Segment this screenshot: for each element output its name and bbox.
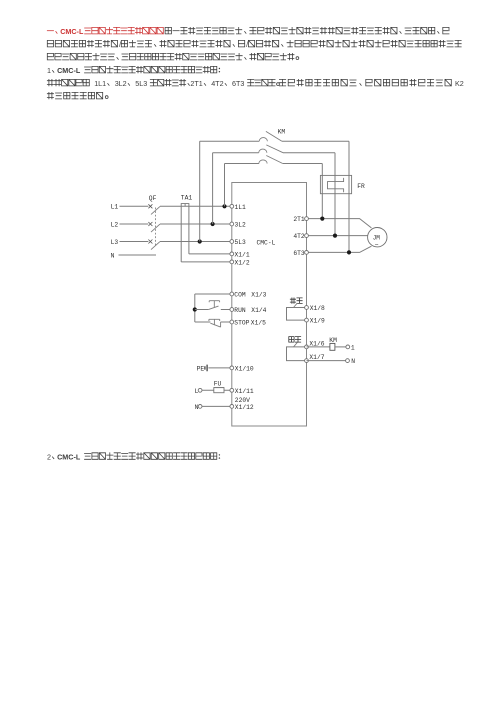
- svg-text:L3: L3: [111, 239, 119, 246]
- svg-text:COM: COM: [234, 292, 246, 299]
- svg-text:RUN: RUN: [234, 307, 246, 314]
- wire control common riser: [194, 294, 196, 322]
- wire to X1/2: [181, 261, 230, 263]
- TA1 lead to X1/2: [180, 206, 182, 262]
- fault relay contact blade: [294, 303, 298, 307]
- terminal N supply: [198, 405, 202, 409]
- terminal X1/10: [230, 366, 234, 370]
- wire KM pole3 to 2T1 node: [321, 164, 323, 219]
- fault relay contact wire: [287, 308, 306, 321]
- svg-text:L2: L2: [111, 221, 119, 228]
- svg-text:/: /: [246, 40, 248, 49]
- current transformer TA1: [181, 204, 189, 207]
- node 6T3 junction: [347, 250, 351, 254]
- circuit breaker QF pole 3 cross: [148, 240, 152, 244]
- breaker QF pole 2 blade: [151, 224, 160, 232]
- terminal STOP X1/5: [230, 320, 234, 324]
- svg-text:X1/5: X1/5: [251, 320, 266, 327]
- node L3 tap: [198, 239, 202, 243]
- terminal X1/12: [230, 405, 234, 409]
- wire N to X1/12: [202, 405, 230, 407]
- terminal COM X1/3: [230, 292, 234, 296]
- wire L to X1/11: [202, 389, 230, 391]
- fuse FU: [214, 388, 224, 393]
- svg-text:2T1: 2T1: [190, 79, 202, 88]
- bypass relay contact blade: [294, 343, 298, 347]
- svg-text:N: N: [195, 404, 199, 411]
- svg-text:CMC-L: CMC-L: [57, 66, 81, 75]
- svg-text:4T2: 4T2: [211, 79, 223, 88]
- svg-text:X1/12: X1/12: [235, 404, 254, 411]
- svg-text:TA1: TA1: [181, 195, 193, 202]
- text line: paragraph line 5: [47, 79, 463, 88]
- TA1 lead to X1/1: [188, 206, 190, 254]
- pushbutton STOP (NC): [195, 319, 230, 327]
- svg-text:QF: QF: [149, 195, 157, 202]
- text line: heading 1: [47, 66, 220, 75]
- text line: paragraph line 3: [47, 53, 298, 60]
- svg-text:1L1: 1L1: [94, 79, 106, 88]
- svg-text:6T3: 6T3: [232, 79, 244, 88]
- svg-text:3L2: 3L2: [115, 79, 127, 88]
- thermal relay FR heater element: [328, 178, 344, 192]
- terminal 4T2: [305, 234, 309, 238]
- terminal X1/8: [305, 306, 309, 310]
- svg-text:X1/4: X1/4: [251, 307, 266, 314]
- svg-text:2T1: 2T1: [293, 216, 305, 223]
- terminal L: [198, 388, 202, 392]
- text line: heading 2: [47, 452, 220, 461]
- svg-text:3L2: 3L2: [235, 222, 247, 229]
- wire 4T2 to motor: [307, 235, 368, 237]
- terminal X1/11: [230, 388, 234, 392]
- label bypass (panglu): [289, 337, 301, 343]
- terminal 5L3: [230, 240, 234, 244]
- svg-text:~: ~: [375, 241, 379, 248]
- svg-text:X1/3: X1/3: [251, 292, 266, 299]
- node control common: [193, 307, 197, 311]
- svg-text:X1/10: X1/10: [235, 365, 254, 372]
- bypass relay contact wire: [287, 347, 306, 361]
- svg-text:CMC-L: CMC-L: [57, 452, 81, 461]
- terminal 1L1: [230, 204, 234, 208]
- svg-text:X1/11: X1/11: [235, 388, 254, 395]
- contactor KM pole 1: [200, 131, 349, 141]
- wire 6T3 to motor: [307, 246, 372, 252]
- svg-text:CMC-L: CMC-L: [60, 27, 84, 36]
- circuit breaker QF pole 1 cross: [148, 204, 152, 208]
- wire KM pole1 to 6T3 node: [348, 141, 350, 252]
- svg-text:L1: L1: [111, 204, 119, 211]
- node L2 tap: [211, 222, 215, 226]
- svg-text:X1/1: X1/1: [235, 251, 250, 258]
- svg-text:FR: FR: [357, 183, 365, 190]
- svg-text:2: 2: [47, 452, 51, 461]
- svg-text:X1/6: X1/6: [309, 340, 324, 347]
- wire KM coil to phase 1: [335, 346, 346, 348]
- svg-text:1: 1: [47, 66, 51, 75]
- wire PE to X1/10: [208, 367, 230, 369]
- svg-text:5L3: 5L3: [135, 79, 147, 88]
- svg-text:L: L: [195, 388, 199, 395]
- wire L3 to breaker: [120, 241, 149, 243]
- wire X1/6 to KM coil: [307, 346, 330, 348]
- wire L3 riser to KM pole 1: [199, 141, 201, 241]
- svg-text:STOP: STOP: [234, 320, 249, 327]
- svg-text:220V: 220V: [235, 397, 250, 404]
- svg-text:CMC-L: CMC-L: [257, 239, 276, 246]
- terminal X1/6: [305, 345, 309, 349]
- contactor coil KM: [330, 343, 335, 350]
- wire KM pole2 to 4T2 node: [334, 153, 336, 236]
- wire L2 riser to KM pole 2: [212, 153, 214, 224]
- terminal 3L2: [230, 222, 234, 226]
- svg-text:1L1: 1L1: [235, 204, 247, 211]
- wire to X1/1: [189, 253, 230, 255]
- svg-text:X1/2: X1/2: [235, 260, 250, 267]
- PE earth symbol: [205, 365, 207, 372]
- wire COM: [195, 293, 230, 295]
- wire L2 breaker to 3L2: [160, 223, 230, 225]
- contactor KM pole 3: [225, 156, 323, 164]
- wire X1/7 to N: [307, 360, 346, 362]
- text line: paragraph line 6: [47, 92, 108, 99]
- soft starter unit CMC-L box: [232, 183, 307, 427]
- svg-text:X1/9: X1/9: [310, 318, 325, 325]
- wire L1 breaker to 1L1: [160, 205, 230, 207]
- svg-text:4T2: 4T2: [293, 233, 305, 240]
- wire L1 riser to KM pole 3: [224, 164, 226, 207]
- breaker QF pole 3 blade: [151, 242, 160, 250]
- breaker QF pole 1 blade: [151, 206, 160, 214]
- terminal phase 1: [346, 345, 350, 349]
- terminal RUN X1/4: [230, 308, 234, 312]
- text line: paragraph line 1: [47, 27, 449, 36]
- text line: paragraph line 2: [47, 40, 461, 49]
- terminal 6T3: [305, 251, 309, 255]
- svg-text:1: 1: [351, 344, 355, 351]
- svg-text:PE: PE: [197, 365, 205, 372]
- wire L1 to breaker: [120, 205, 149, 207]
- breaker QF linkage (dashed): [154, 208, 156, 247]
- svg-text:FU: FU: [214, 381, 222, 388]
- svg-text:X1/8: X1/8: [310, 305, 325, 312]
- svg-text:/: /: [119, 40, 121, 49]
- node 4T2 junction: [333, 234, 337, 238]
- wire 2T1 to motor: [307, 219, 372, 228]
- terminal X1/1: [230, 252, 234, 256]
- svg-text:5L3: 5L3: [235, 239, 247, 246]
- terminal 2T1: [305, 217, 309, 221]
- pushbutton RUN (NO): [195, 301, 230, 310]
- svg-text:K2: K2: [455, 79, 464, 88]
- node 2T1 junction: [320, 217, 324, 221]
- label fault (guzhang): [290, 298, 302, 304]
- wire L2 to breaker: [120, 223, 149, 225]
- svg-text:KM: KM: [278, 128, 286, 135]
- terminal neutral: [346, 359, 350, 363]
- terminal X1/2: [230, 260, 234, 264]
- terminal X1/7: [305, 359, 309, 363]
- circuit breaker QF pole 2 cross: [148, 222, 152, 226]
- contactor KM pole 2: [213, 145, 335, 153]
- node L1 tap: [222, 204, 226, 208]
- motor JM: [368, 228, 387, 249]
- terminal X1/9: [305, 318, 309, 322]
- svg-text:N: N: [111, 252, 115, 259]
- wire L3 breaker to 5L3: [160, 241, 230, 243]
- wire N: [119, 254, 157, 256]
- svg-text:N: N: [351, 358, 355, 365]
- thermal relay FR box: [320, 175, 351, 193]
- svg-text:6T3: 6T3: [293, 250, 305, 257]
